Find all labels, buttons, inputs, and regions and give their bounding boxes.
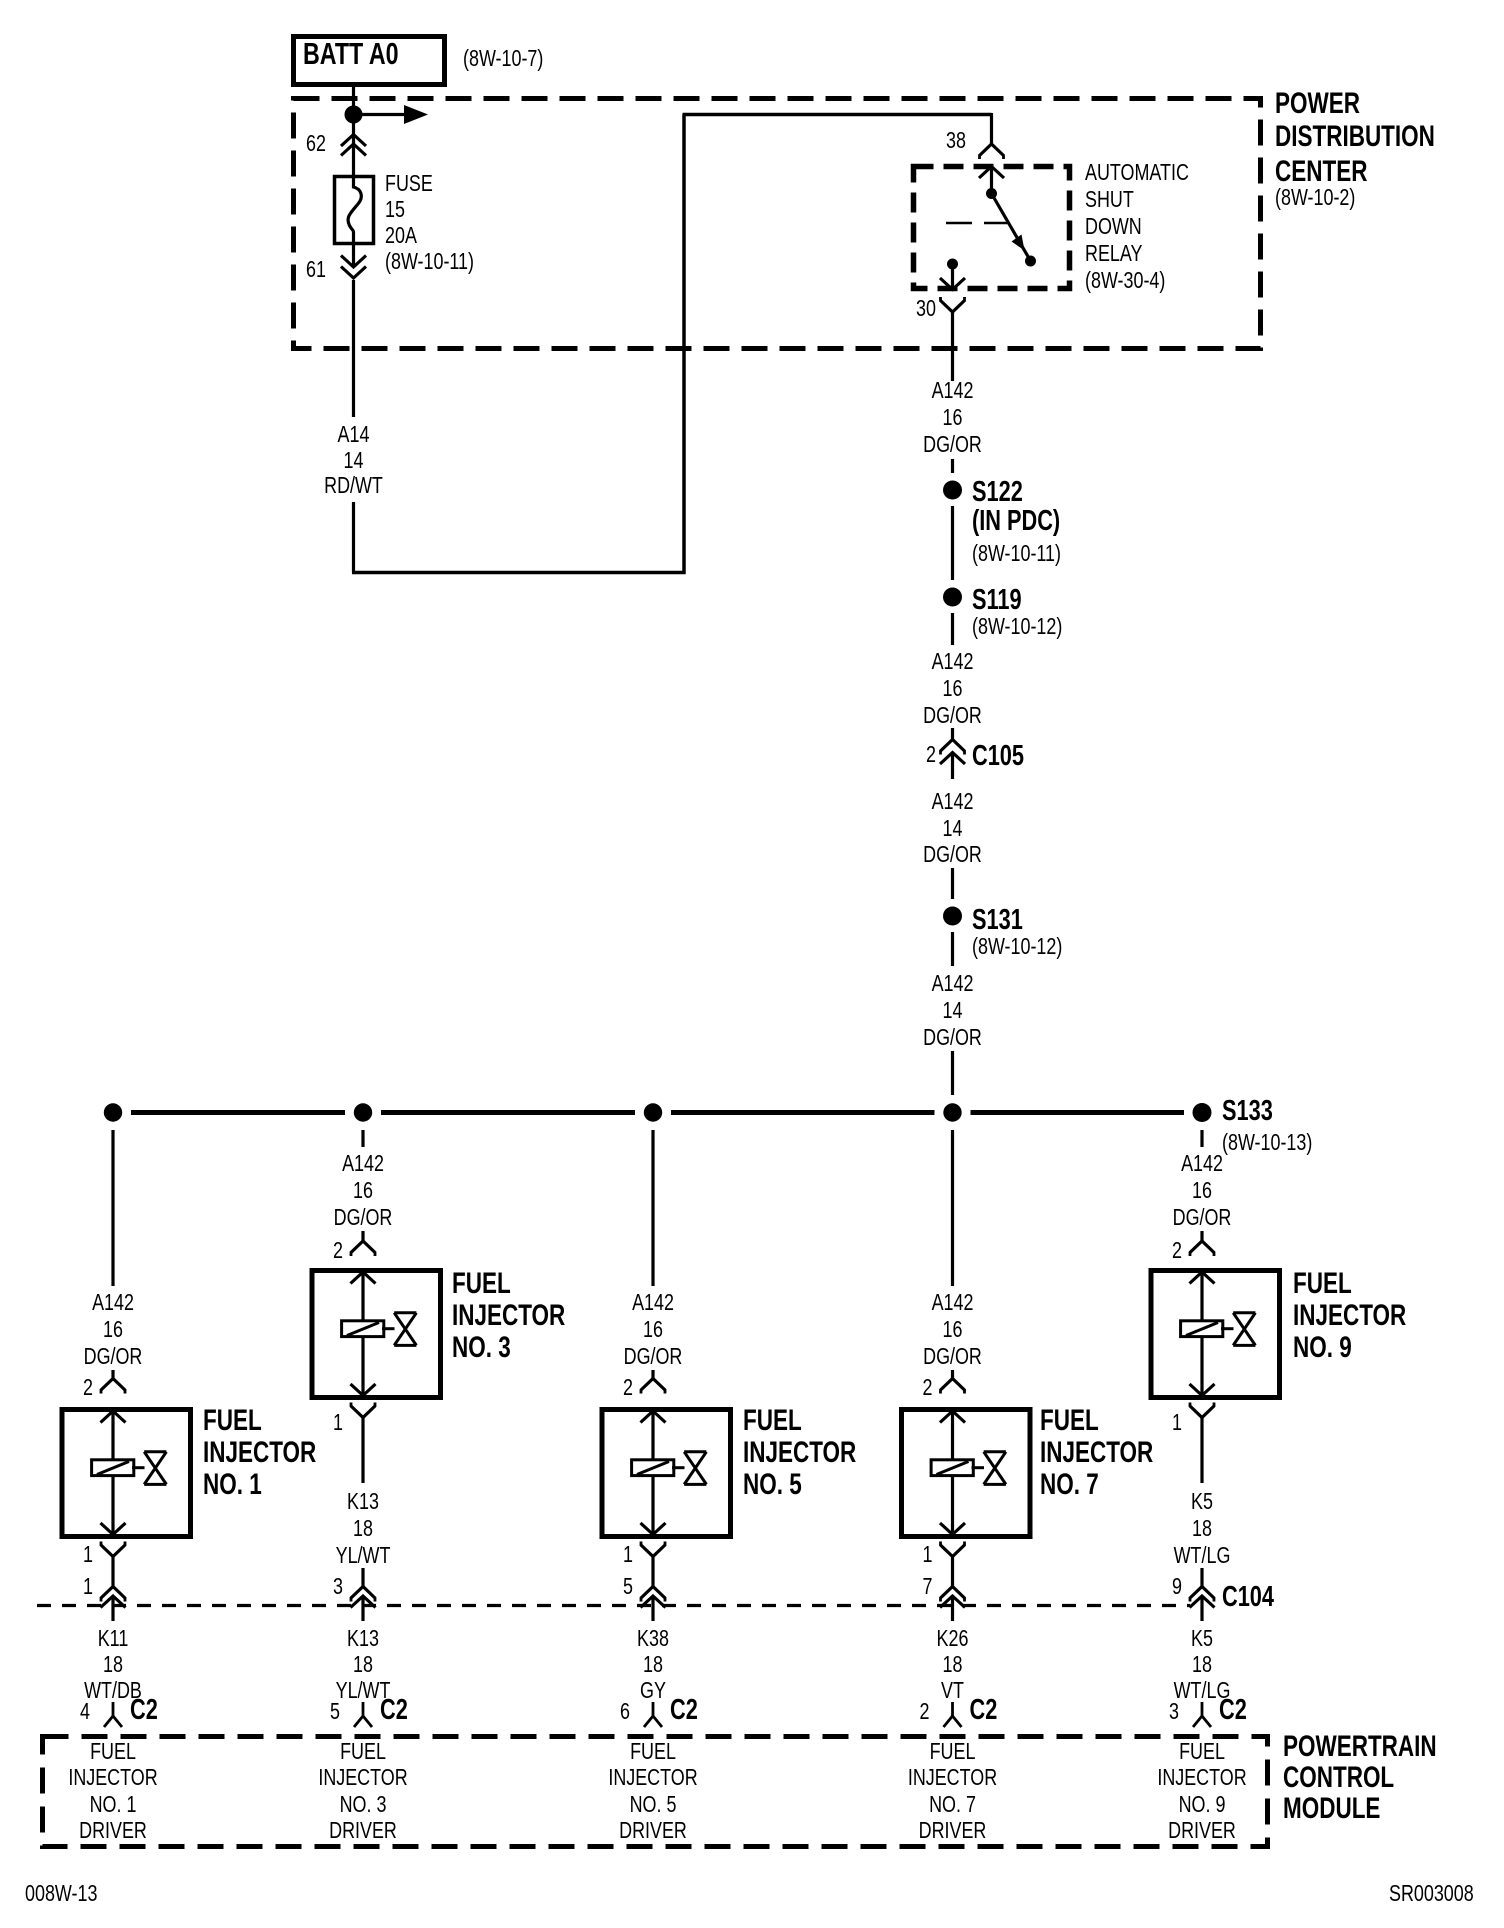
svg-text:FUEL: FUEL	[452, 1266, 511, 1300]
svg-text:38: 38	[946, 128, 966, 154]
wire from BATT A0 down to junction	[352, 86, 355, 106]
svg-text:DG/OR: DG/OR	[624, 1344, 683, 1370]
svg-text:POWER: POWER	[1275, 86, 1360, 120]
svg-text:A142: A142	[342, 1151, 384, 1177]
link to valve	[382, 1327, 395, 1330]
svg-text:(8W-10-7): (8W-10-7)	[463, 46, 543, 72]
link to valve	[1221, 1327, 1234, 1330]
connector male half at relay pin 38	[979, 167, 1004, 179]
svg-text:18: 18	[353, 1652, 373, 1678]
svg-text:RD/WT: RD/WT	[324, 473, 383, 499]
svg-text:DG/OR: DG/OR	[1173, 1205, 1232, 1231]
connector C2 half	[951, 1702, 954, 1716]
svg-text:GY: GY	[640, 1678, 666, 1704]
wire	[951, 506, 954, 580]
branch wire from bus, column injector no. 7	[951, 1130, 954, 1286]
svg-text:5: 5	[623, 1574, 633, 1600]
svg-text:FUEL: FUEL	[203, 1403, 262, 1437]
svg-text:7: 7	[923, 1574, 933, 1600]
svg-text:RELAY: RELAY	[1085, 241, 1143, 267]
svg-text:DRIVER: DRIVER	[1168, 1818, 1236, 1844]
injector internal wire to pin 1	[361, 1338, 364, 1396]
svg-text:(8W-10-13): (8W-10-13)	[1222, 1130, 1312, 1156]
fuel injector no. 9 box	[1151, 1271, 1280, 1398]
svg-text:1: 1	[83, 1542, 93, 1568]
svg-text:K11: K11	[98, 1626, 129, 1652]
svg-text:INJECTOR: INJECTOR	[68, 1765, 157, 1791]
connector female half at injector pin 2	[641, 1379, 665, 1391]
fuel injector no. 1 box	[62, 1410, 191, 1537]
wire A14 lower segment	[352, 502, 355, 573]
svg-text:(8W-10-12): (8W-10-12)	[972, 614, 1062, 640]
fuse element curve	[348, 176, 361, 245]
svg-text:DG/OR: DG/OR	[923, 842, 982, 868]
connector C2 half	[362, 1702, 365, 1716]
svg-text:2: 2	[83, 1375, 93, 1401]
wire	[951, 1370, 954, 1381]
svg-text:SR003008: SR003008	[1389, 1881, 1474, 1907]
injector solenoid coil	[1181, 1321, 1223, 1337]
bus wire segment	[971, 1110, 1185, 1115]
svg-text:S119: S119	[972, 584, 1022, 616]
injector solenoid coil	[632, 1460, 674, 1476]
fuse 15 20A body	[335, 177, 374, 244]
svg-text:C2: C2	[130, 1694, 158, 1726]
svg-text:C2: C2	[670, 1694, 698, 1726]
svg-text:NO. 7: NO. 7	[1040, 1467, 1099, 1501]
svg-text:1: 1	[923, 1542, 933, 1568]
connector female half at injector pin 1	[641, 1545, 665, 1557]
svg-text:(IN PDC): (IN PDC)	[972, 505, 1060, 537]
injector valve symbol	[144, 1450, 166, 1453]
svg-text:A142: A142	[1181, 1151, 1223, 1177]
splice node S133 (8W-10-13)	[1193, 1103, 1212, 1122]
injector pin 2 internal arrow	[101, 1411, 126, 1423]
bus wire segment	[131, 1110, 345, 1115]
svg-text:INJECTOR: INJECTOR	[608, 1765, 697, 1791]
svg-text:4: 4	[80, 1699, 90, 1725]
svg-text:1: 1	[623, 1542, 633, 1568]
wire from fuse to pin 61 connector	[352, 244, 355, 266]
svg-text:DG/OR: DG/OR	[923, 1025, 982, 1051]
bus junction dot column 2	[354, 1103, 372, 1121]
svg-text:CENTER: CENTER	[1275, 154, 1367, 188]
wire to C104	[361, 1434, 364, 1483]
svg-text:S131: S131	[972, 904, 1023, 936]
svg-text:A142: A142	[932, 649, 974, 675]
svg-text:INJECTOR: INJECTOR	[452, 1298, 565, 1332]
svg-text:FUEL: FUEL	[630, 1739, 676, 1765]
svg-text:A142: A142	[932, 378, 974, 404]
svg-text:K26: K26	[937, 1626, 969, 1652]
svg-text:9: 9	[1172, 1574, 1182, 1600]
svg-text:1: 1	[1172, 1410, 1182, 1436]
injector solenoid coil	[931, 1460, 973, 1476]
connector female half at injector pin 1	[1190, 1406, 1214, 1418]
wire A142 from relay pin 30	[951, 312, 954, 381]
svg-text:A142: A142	[932, 789, 974, 815]
svg-text:2: 2	[926, 742, 936, 768]
svg-text:FUEL: FUEL	[340, 1739, 386, 1765]
link to valve	[132, 1466, 145, 1469]
svg-text:NO. 3: NO. 3	[340, 1792, 387, 1818]
svg-text:18: 18	[1192, 1652, 1212, 1678]
svg-text:SHUT: SHUT	[1085, 187, 1134, 213]
svg-text:S122: S122	[972, 476, 1023, 508]
wire	[951, 1051, 954, 1095]
powertrain control module dashed box	[43, 1737, 1268, 1847]
wire	[951, 459, 954, 473]
injector valve symbol	[394, 1311, 416, 1314]
svg-text:A142: A142	[632, 1290, 674, 1316]
power distribution center dashed box	[294, 99, 1261, 349]
svg-text:K13: K13	[347, 1626, 379, 1652]
relay switch arm with arrow	[992, 194, 1031, 261]
relay terminal 30 internal dot	[947, 259, 958, 270]
svg-text:A14: A14	[338, 422, 370, 448]
wire vertical run up to relay feed	[682, 115, 686, 575]
svg-text:14: 14	[344, 448, 364, 474]
wire from junction into fuse	[352, 123, 355, 175]
svg-text:FUEL: FUEL	[743, 1403, 802, 1437]
bus junction dot column 1	[104, 1103, 122, 1121]
connector female half at injector pin 1	[941, 1545, 965, 1557]
svg-text:FUSE: FUSE	[385, 171, 433, 197]
splice node S122 (IN PDC) (8W-10-11)	[943, 481, 962, 500]
svg-text:A142: A142	[932, 1290, 974, 1316]
svg-text:1: 1	[333, 1410, 343, 1436]
splice node S131 (8W-10-12)	[943, 907, 962, 926]
svg-text:2: 2	[923, 1375, 933, 1401]
svg-text:DRIVER: DRIVER	[329, 1818, 397, 1844]
bus junction dot column 3	[644, 1103, 662, 1121]
injector pin 2 internal arrow	[641, 1411, 666, 1423]
svg-text:INJECTOR: INJECTOR	[318, 1765, 407, 1791]
link to valve	[672, 1466, 685, 1469]
svg-text:2: 2	[333, 1238, 343, 1264]
wire to C104	[111, 1557, 114, 1587]
injector valve symbol	[984, 1450, 1006, 1453]
svg-text:18: 18	[943, 1652, 963, 1678]
svg-text:16: 16	[943, 676, 963, 702]
svg-text:NO. 1: NO. 1	[203, 1467, 262, 1501]
wire to C104	[951, 1557, 954, 1587]
wire	[361, 1568, 364, 1587]
svg-text:DRIVER: DRIVER	[79, 1818, 147, 1844]
svg-text:K38: K38	[637, 1626, 669, 1652]
svg-text:A142: A142	[92, 1290, 134, 1316]
connector C104 male half	[351, 1596, 376, 1608]
svg-text:DRIVER: DRIVER	[619, 1818, 687, 1844]
svg-text:30: 30	[916, 296, 936, 322]
connector female half at injector pin 2	[101, 1379, 125, 1391]
svg-text:3: 3	[1169, 1699, 1179, 1725]
connector C2 half	[112, 1702, 115, 1716]
svg-text:AUTOMATIC: AUTOMATIC	[1085, 160, 1189, 186]
connector C104 male half	[101, 1596, 126, 1608]
svg-text:15: 15	[385, 197, 405, 223]
svg-text:16: 16	[353, 1178, 373, 1204]
svg-text:NO. 7: NO. 7	[929, 1792, 976, 1818]
fuel injector no. 7 box	[902, 1410, 1031, 1537]
injector internal wire to pin 1	[951, 1477, 954, 1535]
svg-text:008W-13: 008W-13	[25, 1881, 97, 1907]
injector pin 1 internal arrow	[1190, 1384, 1215, 1396]
svg-text:(8W-10-12): (8W-10-12)	[972, 934, 1062, 960]
bus junction dot column 4	[943, 1103, 961, 1121]
wire to C104	[651, 1557, 654, 1587]
svg-text:DG/OR: DG/OR	[923, 1344, 982, 1370]
svg-text:K5: K5	[1191, 1489, 1213, 1515]
connector C104 male half	[1190, 1596, 1215, 1608]
injector pin 1 internal arrow	[101, 1523, 126, 1535]
injector pin 2 internal arrow	[940, 1411, 965, 1423]
svg-text:A142: A142	[932, 971, 974, 997]
svg-text:INJECTOR: INJECTOR	[203, 1435, 316, 1469]
junction node dot at battery feed	[345, 106, 363, 124]
svg-text:C2: C2	[970, 1694, 998, 1726]
connector C104 male half	[641, 1596, 666, 1608]
svg-text:FUEL: FUEL	[90, 1739, 136, 1765]
svg-text:FUEL: FUEL	[1179, 1739, 1225, 1765]
connector female half at relay pin 30	[941, 301, 965, 313]
relay terminal 30 wire and male connector half	[951, 267, 954, 289]
injector valve symbol	[1233, 1311, 1255, 1314]
in-line connector C105	[941, 740, 965, 752]
svg-text:POWERTRAIN: POWERTRAIN	[1283, 1729, 1437, 1763]
svg-text:VT: VT	[941, 1678, 964, 1704]
wire	[1200, 1568, 1203, 1587]
svg-text:INJECTOR: INJECTOR	[1040, 1435, 1153, 1469]
automatic shut down relay dashed box	[914, 167, 1070, 289]
relay fixed contact line	[946, 222, 972, 225]
svg-text:16: 16	[103, 1317, 123, 1343]
svg-text:16: 16	[943, 1317, 963, 1343]
injector pin 1 internal arrow	[351, 1384, 376, 1396]
svg-text:YL/WT: YL/WT	[336, 1543, 391, 1569]
branch wire from bus, column injector no. 5	[651, 1130, 654, 1286]
svg-text:6: 6	[620, 1699, 630, 1725]
svg-text:18: 18	[353, 1516, 373, 1542]
svg-text:C105: C105	[972, 740, 1024, 772]
connector C104 female half	[351, 1587, 375, 1599]
svg-text:NO. 3: NO. 3	[452, 1330, 511, 1364]
connector female half at injector pin 1	[101, 1545, 125, 1557]
bus wire segment	[381, 1110, 635, 1115]
svg-text:INJECTOR: INJECTOR	[1157, 1765, 1246, 1791]
wire	[951, 613, 954, 645]
svg-text:61: 61	[306, 257, 326, 283]
branch wire from bus, column injector no. 3	[361, 1130, 364, 1147]
branch wire from bus, column injector no. 1	[111, 1130, 114, 1286]
svg-text:(8W-30-4): (8W-30-4)	[1085, 268, 1165, 294]
connector C104 female half	[641, 1587, 665, 1599]
svg-text:NO. 9: NO. 9	[1179, 1792, 1226, 1818]
fuel injector no. 3 box	[312, 1271, 441, 1398]
connector female half at relay pin 38	[980, 144, 1004, 156]
wire	[651, 1370, 654, 1381]
connector C2 half	[652, 1702, 655, 1716]
svg-text:18: 18	[103, 1652, 123, 1678]
feed continuation arrow to other circuits	[354, 113, 408, 116]
injector pin 2 internal arrow	[1190, 1272, 1215, 1284]
svg-text:(8W-10-11): (8W-10-11)	[972, 541, 1061, 567]
svg-text:DISTRIBUTION: DISTRIBUTION	[1275, 119, 1435, 153]
relay normally-open contact dot	[1025, 256, 1036, 267]
wire	[951, 868, 954, 899]
svg-text:S133: S133	[1222, 1095, 1273, 1127]
connector female half at injector pin 2	[1190, 1241, 1214, 1253]
svg-text:FUEL: FUEL	[1293, 1266, 1352, 1300]
injector internal wire to pin 1	[651, 1477, 654, 1535]
wire	[951, 728, 954, 740]
svg-text:C104: C104	[1222, 1581, 1275, 1613]
connector female half at injector pin 2	[351, 1241, 375, 1253]
svg-text:C2: C2	[1219, 1694, 1247, 1726]
connector C104 female half	[941, 1587, 965, 1599]
svg-text:18: 18	[643, 1652, 663, 1678]
svg-text:3: 3	[333, 1574, 343, 1600]
wire horizontal run to the right	[352, 571, 686, 575]
svg-text:K13: K13	[347, 1489, 379, 1515]
svg-text:1: 1	[83, 1574, 93, 1600]
connector female half at injector pin 1	[351, 1406, 375, 1418]
injector valve symbol	[684, 1450, 706, 1453]
svg-text:14: 14	[943, 998, 963, 1024]
svg-text:(8W-10-11): (8W-10-11)	[385, 249, 474, 275]
injector pin 2 internal arrow	[351, 1272, 376, 1284]
svg-text:INJECTOR: INJECTOR	[1293, 1298, 1406, 1332]
svg-text:2: 2	[1172, 1238, 1182, 1264]
svg-text:DG/OR: DG/OR	[334, 1205, 393, 1231]
svg-text:FUEL: FUEL	[1040, 1403, 1099, 1437]
svg-text:16: 16	[643, 1317, 663, 1343]
svg-text:16: 16	[943, 405, 963, 431]
svg-text:CONTROL: CONTROL	[1283, 1760, 1394, 1794]
link to valve	[972, 1466, 985, 1469]
wire to C104	[1200, 1434, 1203, 1483]
injector solenoid coil	[92, 1460, 134, 1476]
svg-text:NO. 5: NO. 5	[743, 1467, 802, 1501]
wire	[951, 932, 954, 966]
injector solenoid coil	[342, 1321, 384, 1337]
connector C104 male half	[940, 1596, 965, 1608]
svg-text:FUEL: FUEL	[930, 1739, 976, 1765]
connector C104 female half	[101, 1587, 125, 1599]
fuel injector no. 5 box	[602, 1410, 731, 1537]
svg-text:18: 18	[1192, 1516, 1212, 1542]
svg-text:DG/OR: DG/OR	[923, 432, 982, 458]
connector female half at injector pin 2	[941, 1379, 965, 1391]
splice node S119 (8W-10-12)	[943, 588, 962, 607]
connector chevrons at fuse pin 61	[341, 256, 366, 268]
branch wire from bus, column injector no. 9	[1200, 1130, 1203, 1147]
connector C104 female half	[1190, 1587, 1214, 1599]
svg-text:DG/OR: DG/OR	[84, 1344, 143, 1370]
svg-text:5: 5	[330, 1699, 340, 1725]
svg-text:NO. 5: NO. 5	[630, 1792, 677, 1818]
connector C2 half	[1201, 1702, 1204, 1716]
svg-text:DG/OR: DG/OR	[923, 703, 982, 729]
svg-text:K5: K5	[1191, 1626, 1213, 1652]
svg-text:NO. 9: NO. 9	[1293, 1330, 1352, 1364]
connector C104 dashed line	[37, 1604, 1190, 1607]
wire	[361, 1231, 364, 1242]
wire	[111, 1370, 114, 1381]
svg-text:16: 16	[1192, 1178, 1212, 1204]
svg-text:WT/LG: WT/LG	[1174, 1543, 1231, 1569]
bus wire segment	[671, 1110, 935, 1115]
svg-text:14: 14	[943, 816, 963, 842]
svg-text:BATT A0: BATT A0	[303, 36, 399, 71]
injector internal wire to pin 1	[1200, 1338, 1203, 1396]
svg-text:DOWN: DOWN	[1085, 214, 1142, 240]
wire	[1200, 1231, 1203, 1242]
wire horizontal run to relay terminal 38	[683, 113, 992, 117]
svg-text:62: 62	[306, 131, 326, 157]
wire A14 down from fuse	[352, 280, 355, 417]
svg-text:INJECTOR: INJECTOR	[908, 1765, 997, 1791]
svg-text:2: 2	[623, 1375, 633, 1401]
svg-text:20A: 20A	[385, 223, 417, 249]
relay switch pivot dot	[986, 188, 997, 199]
svg-text:DRIVER: DRIVER	[919, 1818, 987, 1844]
injector internal wire to pin 1	[111, 1477, 114, 1535]
injector pin 1 internal arrow	[641, 1523, 666, 1535]
svg-text:INJECTOR: INJECTOR	[743, 1435, 856, 1469]
injector pin 1 internal arrow	[940, 1523, 965, 1535]
svg-text:NO. 1: NO. 1	[90, 1792, 137, 1818]
svg-text:2: 2	[920, 1699, 930, 1725]
connector chevrons at fuse pin 62	[341, 135, 366, 147]
svg-text:(8W-10-2): (8W-10-2)	[1275, 185, 1355, 211]
svg-text:MODULE: MODULE	[1283, 1791, 1380, 1825]
svg-text:C2: C2	[380, 1694, 408, 1726]
battery feed box BATT A0	[294, 37, 445, 85]
wire into relay terminal 38	[990, 113, 993, 144]
